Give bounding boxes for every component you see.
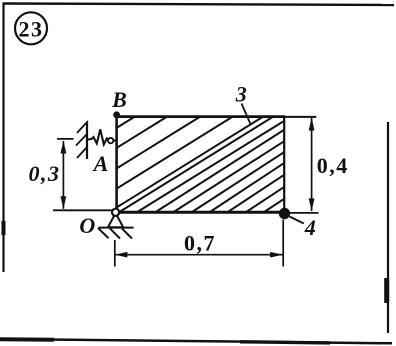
svg-text:3: 3	[235, 81, 247, 106]
svg-text:0,4: 0,4	[317, 153, 349, 178]
svg-text:A: A	[92, 151, 109, 176]
svg-text:0,7: 0,7	[184, 231, 216, 256]
svg-text:B: B	[111, 87, 127, 112]
svg-text:0,3: 0,3	[29, 161, 61, 186]
svg-text:23: 23	[19, 17, 44, 42]
svg-text:O: O	[79, 213, 95, 238]
svg-text:4: 4	[304, 215, 316, 240]
